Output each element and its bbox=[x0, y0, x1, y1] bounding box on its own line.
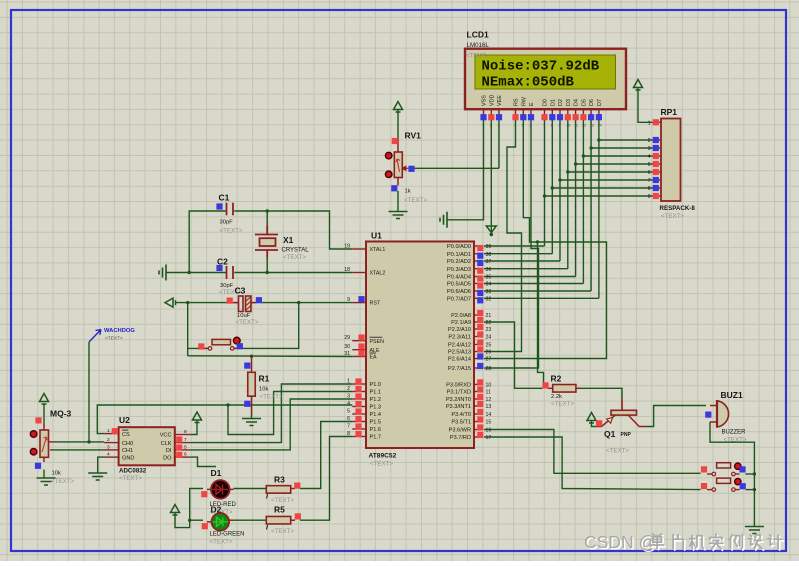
svg-text:LCD1: LCD1 bbox=[467, 30, 489, 40]
svg-text:5: 5 bbox=[347, 409, 350, 415]
svg-text:P1.4: P1.4 bbox=[370, 412, 382, 418]
svg-text:1: 1 bbox=[107, 428, 110, 434]
svg-text:P3.5/T1: P3.5/T1 bbox=[451, 420, 471, 426]
svg-text:<TEXT>: <TEXT> bbox=[370, 461, 393, 468]
svg-text:12: 12 bbox=[582, 124, 586, 128]
svg-text:NEmax:050dB: NEmax:050dB bbox=[482, 75, 575, 91]
svg-text:XTAL1: XTAL1 bbox=[370, 247, 386, 253]
svg-text:39: 39 bbox=[486, 244, 492, 250]
svg-text:<TEXT>: <TEXT> bbox=[271, 528, 294, 535]
svg-text:10k: 10k bbox=[259, 387, 268, 393]
svg-text:9: 9 bbox=[648, 194, 651, 200]
svg-text:14: 14 bbox=[486, 412, 492, 418]
svg-text:31: 31 bbox=[344, 351, 350, 357]
svg-text:XTAL2: XTAL2 bbox=[370, 271, 386, 277]
svg-text:<TEXT>: <TEXT> bbox=[236, 319, 259, 326]
svg-text:13: 13 bbox=[590, 124, 594, 128]
svg-text:10k: 10k bbox=[52, 471, 61, 477]
svg-text:P1.1: P1.1 bbox=[370, 390, 382, 396]
svg-text:P2.1/A9: P2.1/A9 bbox=[451, 320, 471, 326]
svg-text:D5: D5 bbox=[581, 99, 587, 106]
svg-text:PSEN: PSEN bbox=[370, 339, 385, 345]
svg-text:7: 7 bbox=[543, 124, 545, 128]
svg-text:RP1: RP1 bbox=[661, 107, 678, 117]
svg-text:U1: U1 bbox=[371, 231, 382, 241]
svg-text:D1: D1 bbox=[211, 468, 222, 478]
svg-text:CRYSTAL: CRYSTAL bbox=[282, 248, 310, 254]
svg-text:26: 26 bbox=[486, 350, 492, 356]
svg-text:<TEXT>: <TEXT> bbox=[661, 213, 684, 220]
svg-text:6: 6 bbox=[648, 170, 651, 176]
svg-text:ADC0832: ADC0832 bbox=[119, 468, 147, 475]
svg-text:7: 7 bbox=[184, 437, 187, 443]
svg-text:<TEXT>: <TEXT> bbox=[260, 394, 283, 401]
svg-text:R3: R3 bbox=[274, 475, 285, 485]
svg-text:DO: DO bbox=[163, 455, 172, 461]
svg-text:35: 35 bbox=[486, 275, 492, 281]
svg-text:C3: C3 bbox=[235, 286, 246, 296]
svg-text:DI: DI bbox=[166, 448, 172, 454]
svg-text:14: 14 bbox=[597, 124, 601, 128]
svg-text:WACHDOG: WACHDOG bbox=[104, 328, 135, 334]
svg-text:33: 33 bbox=[486, 289, 492, 295]
svg-text:3: 3 bbox=[648, 146, 651, 152]
svg-text:R1: R1 bbox=[259, 374, 270, 384]
svg-text:P1.3: P1.3 bbox=[370, 405, 382, 411]
svg-text:P3.2/INT0: P3.2/INT0 bbox=[446, 397, 471, 403]
svg-text:D6: D6 bbox=[589, 99, 595, 106]
svg-text:5: 5 bbox=[648, 162, 651, 168]
svg-text:<TEXT>: <TEXT> bbox=[283, 254, 306, 261]
svg-text:3: 3 bbox=[347, 394, 350, 400]
svg-text:Q1: Q1 bbox=[604, 429, 616, 439]
svg-text:3: 3 bbox=[107, 444, 110, 450]
svg-text:2: 2 bbox=[648, 138, 651, 144]
svg-text:VEE: VEE bbox=[497, 95, 503, 106]
svg-text:CH1: CH1 bbox=[122, 448, 133, 454]
svg-text:VSS: VSS bbox=[482, 95, 488, 106]
svg-text:D3: D3 bbox=[566, 99, 572, 106]
svg-text:E: E bbox=[529, 102, 535, 106]
svg-text:23: 23 bbox=[486, 327, 492, 333]
svg-text:<TEXT>: <TEXT> bbox=[220, 228, 243, 235]
svg-text:<TEXT>: <TEXT> bbox=[466, 53, 489, 60]
svg-text:R2: R2 bbox=[551, 374, 562, 384]
svg-text:4: 4 bbox=[514, 124, 516, 128]
svg-text:BUZZER: BUZZER bbox=[722, 430, 747, 436]
svg-text:34: 34 bbox=[486, 282, 492, 288]
svg-text:U2: U2 bbox=[119, 415, 130, 425]
svg-text:P0.4/AD4: P0.4/AD4 bbox=[447, 275, 471, 281]
svg-text:P0.1/AD1: P0.1/AD1 bbox=[447, 252, 471, 258]
svg-text:8: 8 bbox=[347, 431, 350, 437]
svg-text:CH0: CH0 bbox=[122, 441, 133, 447]
svg-text:21: 21 bbox=[486, 313, 492, 319]
svg-text:RST: RST bbox=[370, 301, 381, 307]
svg-text:P1.5: P1.5 bbox=[370, 420, 382, 426]
svg-text:P2.5/A13: P2.5/A13 bbox=[448, 350, 471, 356]
svg-text:LM016L: LM016L bbox=[467, 42, 490, 49]
svg-text:36: 36 bbox=[486, 267, 492, 273]
svg-text:P1.2: P1.2 bbox=[370, 397, 382, 403]
svg-text:C1: C1 bbox=[219, 193, 230, 203]
svg-text:<TEXT>: <TEXT> bbox=[210, 539, 233, 546]
svg-text:Noise:037.92dB: Noise:037.92dB bbox=[482, 59, 600, 75]
svg-text:7: 7 bbox=[648, 178, 651, 184]
svg-text:8: 8 bbox=[184, 429, 187, 435]
svg-text:7: 7 bbox=[347, 424, 350, 430]
svg-text:D4: D4 bbox=[574, 99, 580, 106]
svg-text:2: 2 bbox=[107, 437, 110, 443]
svg-text:1k: 1k bbox=[405, 189, 411, 195]
svg-text:32: 32 bbox=[486, 297, 492, 303]
svg-text:<TEXT>: <TEXT> bbox=[51, 478, 74, 485]
svg-text:1: 1 bbox=[648, 120, 651, 126]
svg-text:6: 6 bbox=[184, 452, 187, 458]
svg-text:3: 3 bbox=[498, 124, 500, 128]
svg-text:5: 5 bbox=[184, 444, 187, 450]
svg-text:BUZ1: BUZ1 bbox=[721, 390, 743, 400]
svg-text:<TEXT>: <TEXT> bbox=[724, 437, 747, 444]
svg-text:P0.7/AD7: P0.7/AD7 bbox=[447, 297, 471, 303]
svg-text:VCC: VCC bbox=[160, 433, 172, 439]
svg-text:6: 6 bbox=[530, 124, 532, 128]
svg-text:GND: GND bbox=[122, 455, 134, 461]
svg-text:P3.3/INT1: P3.3/INT1 bbox=[446, 404, 471, 410]
svg-text:17: 17 bbox=[486, 435, 492, 441]
svg-text:<TEXT>: <TEXT> bbox=[119, 475, 142, 482]
svg-text:4: 4 bbox=[107, 452, 110, 458]
svg-text:AT89C52: AT89C52 bbox=[369, 453, 397, 460]
svg-text:EA: EA bbox=[370, 355, 378, 361]
svg-text:30: 30 bbox=[344, 344, 350, 350]
svg-text:P2.4/A12: P2.4/A12 bbox=[448, 343, 471, 349]
svg-text:10: 10 bbox=[486, 383, 492, 389]
svg-text:19: 19 bbox=[344, 244, 350, 250]
svg-text:P2.7/A15: P2.7/A15 bbox=[448, 366, 471, 372]
svg-text:22: 22 bbox=[486, 320, 492, 326]
svg-text:P3.0/RXD: P3.0/RXD bbox=[446, 383, 471, 389]
svg-text:D2: D2 bbox=[558, 99, 564, 106]
svg-text:2.2k: 2.2k bbox=[551, 394, 562, 400]
svg-text:P2.0/A8: P2.0/A8 bbox=[451, 313, 471, 319]
svg-text:30pF: 30pF bbox=[220, 220, 234, 226]
svg-text:RESPACK-8: RESPACK-8 bbox=[660, 205, 696, 212]
svg-text:CLK: CLK bbox=[161, 441, 172, 447]
svg-text:1: 1 bbox=[482, 124, 484, 128]
svg-text:15: 15 bbox=[486, 420, 492, 426]
svg-text:10: 10 bbox=[566, 124, 570, 128]
svg-text:2: 2 bbox=[490, 124, 492, 128]
svg-text:P1.6: P1.6 bbox=[370, 427, 382, 433]
svg-text:6: 6 bbox=[347, 416, 350, 422]
svg-text:11: 11 bbox=[574, 124, 578, 128]
svg-text:P3.1/TXD: P3.1/TXD bbox=[447, 390, 471, 396]
svg-text:5: 5 bbox=[522, 124, 524, 128]
svg-text:RS: RS bbox=[514, 98, 520, 106]
svg-text:4: 4 bbox=[347, 401, 350, 407]
svg-text:13: 13 bbox=[486, 404, 492, 410]
svg-text:4: 4 bbox=[648, 154, 651, 160]
svg-text:P2.2/A10: P2.2/A10 bbox=[448, 327, 471, 333]
svg-text:<TEXT>: <TEXT> bbox=[105, 336, 123, 342]
svg-text:9: 9 bbox=[347, 297, 350, 303]
svg-text:38: 38 bbox=[486, 252, 492, 258]
svg-text:24: 24 bbox=[486, 335, 492, 341]
svg-text:<TEXT>: <TEXT> bbox=[271, 497, 294, 504]
svg-text:X1: X1 bbox=[283, 235, 294, 245]
svg-text:29: 29 bbox=[344, 335, 350, 341]
svg-text:8: 8 bbox=[551, 124, 553, 128]
svg-text:R5: R5 bbox=[274, 505, 285, 515]
svg-text:P1.7: P1.7 bbox=[370, 435, 382, 441]
svg-text:P2.3/A11: P2.3/A11 bbox=[448, 335, 471, 341]
svg-text:D1: D1 bbox=[550, 99, 556, 106]
svg-text:P3.4/T0: P3.4/T0 bbox=[451, 412, 471, 418]
svg-text:27: 27 bbox=[486, 357, 492, 363]
svg-text:37: 37 bbox=[486, 259, 492, 265]
svg-text:RW: RW bbox=[521, 96, 527, 106]
svg-text:D0: D0 bbox=[543, 99, 549, 106]
svg-text:CSDN @: CSDN @ bbox=[584, 532, 656, 552]
svg-text:P1.0: P1.0 bbox=[370, 382, 382, 388]
svg-text:12: 12 bbox=[486, 397, 492, 403]
svg-text:18: 18 bbox=[344, 267, 350, 273]
svg-text:<TEXT>: <TEXT> bbox=[606, 448, 629, 455]
svg-text:11: 11 bbox=[486, 390, 491, 396]
svg-text:28: 28 bbox=[486, 366, 492, 372]
svg-text:<TEXT>: <TEXT> bbox=[404, 197, 427, 204]
svg-text:25: 25 bbox=[486, 343, 492, 349]
svg-text:1: 1 bbox=[347, 379, 350, 385]
svg-text:16: 16 bbox=[486, 428, 492, 434]
svg-text:MQ-3: MQ-3 bbox=[50, 409, 72, 419]
svg-text:D7: D7 bbox=[597, 99, 603, 106]
svg-text:LED-GREEN: LED-GREEN bbox=[210, 532, 245, 538]
svg-text:2: 2 bbox=[347, 386, 350, 392]
svg-text:RV1: RV1 bbox=[405, 131, 422, 141]
svg-text:<TEXT>: <TEXT> bbox=[551, 401, 574, 408]
svg-text:P3.6/WR: P3.6/WR bbox=[449, 428, 471, 434]
svg-text:P0.6/AD6: P0.6/AD6 bbox=[447, 289, 471, 295]
svg-text:PNP: PNP bbox=[621, 432, 632, 438]
svg-text:CS: CS bbox=[122, 432, 130, 438]
svg-text:P2.6/A14: P2.6/A14 bbox=[448, 357, 471, 363]
svg-text:VDD: VDD bbox=[489, 95, 495, 106]
svg-text:P0.3/AD3: P0.3/AD3 bbox=[447, 267, 471, 273]
svg-text:P3.7/RD: P3.7/RD bbox=[450, 435, 471, 441]
svg-text:P0.5/AD5: P0.5/AD5 bbox=[447, 282, 471, 288]
svg-text:P0.2/AD2: P0.2/AD2 bbox=[447, 259, 471, 265]
svg-text:8: 8 bbox=[648, 186, 651, 192]
svg-text:P0.0/AD0: P0.0/AD0 bbox=[447, 244, 471, 250]
svg-text:9: 9 bbox=[559, 124, 561, 128]
